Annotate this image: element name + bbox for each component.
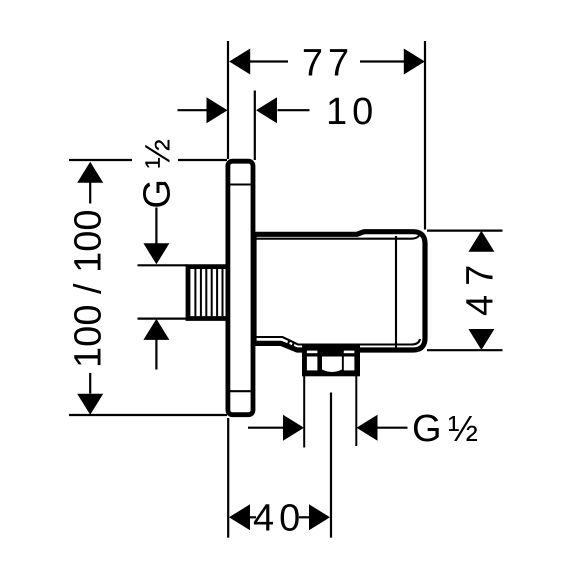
svg-text:G: G	[136, 179, 178, 209]
svg-text:100 / 100: 100 / 100	[67, 209, 109, 367]
svg-text:40: 40	[253, 498, 305, 540]
svg-text:½: ½	[137, 139, 177, 169]
svg-text:47: 47	[459, 256, 501, 316]
svg-text:10: 10	[326, 91, 378, 133]
svg-text:77: 77	[302, 43, 354, 85]
svg-text:G: G	[412, 408, 442, 450]
svg-text:½: ½	[448, 408, 478, 449]
